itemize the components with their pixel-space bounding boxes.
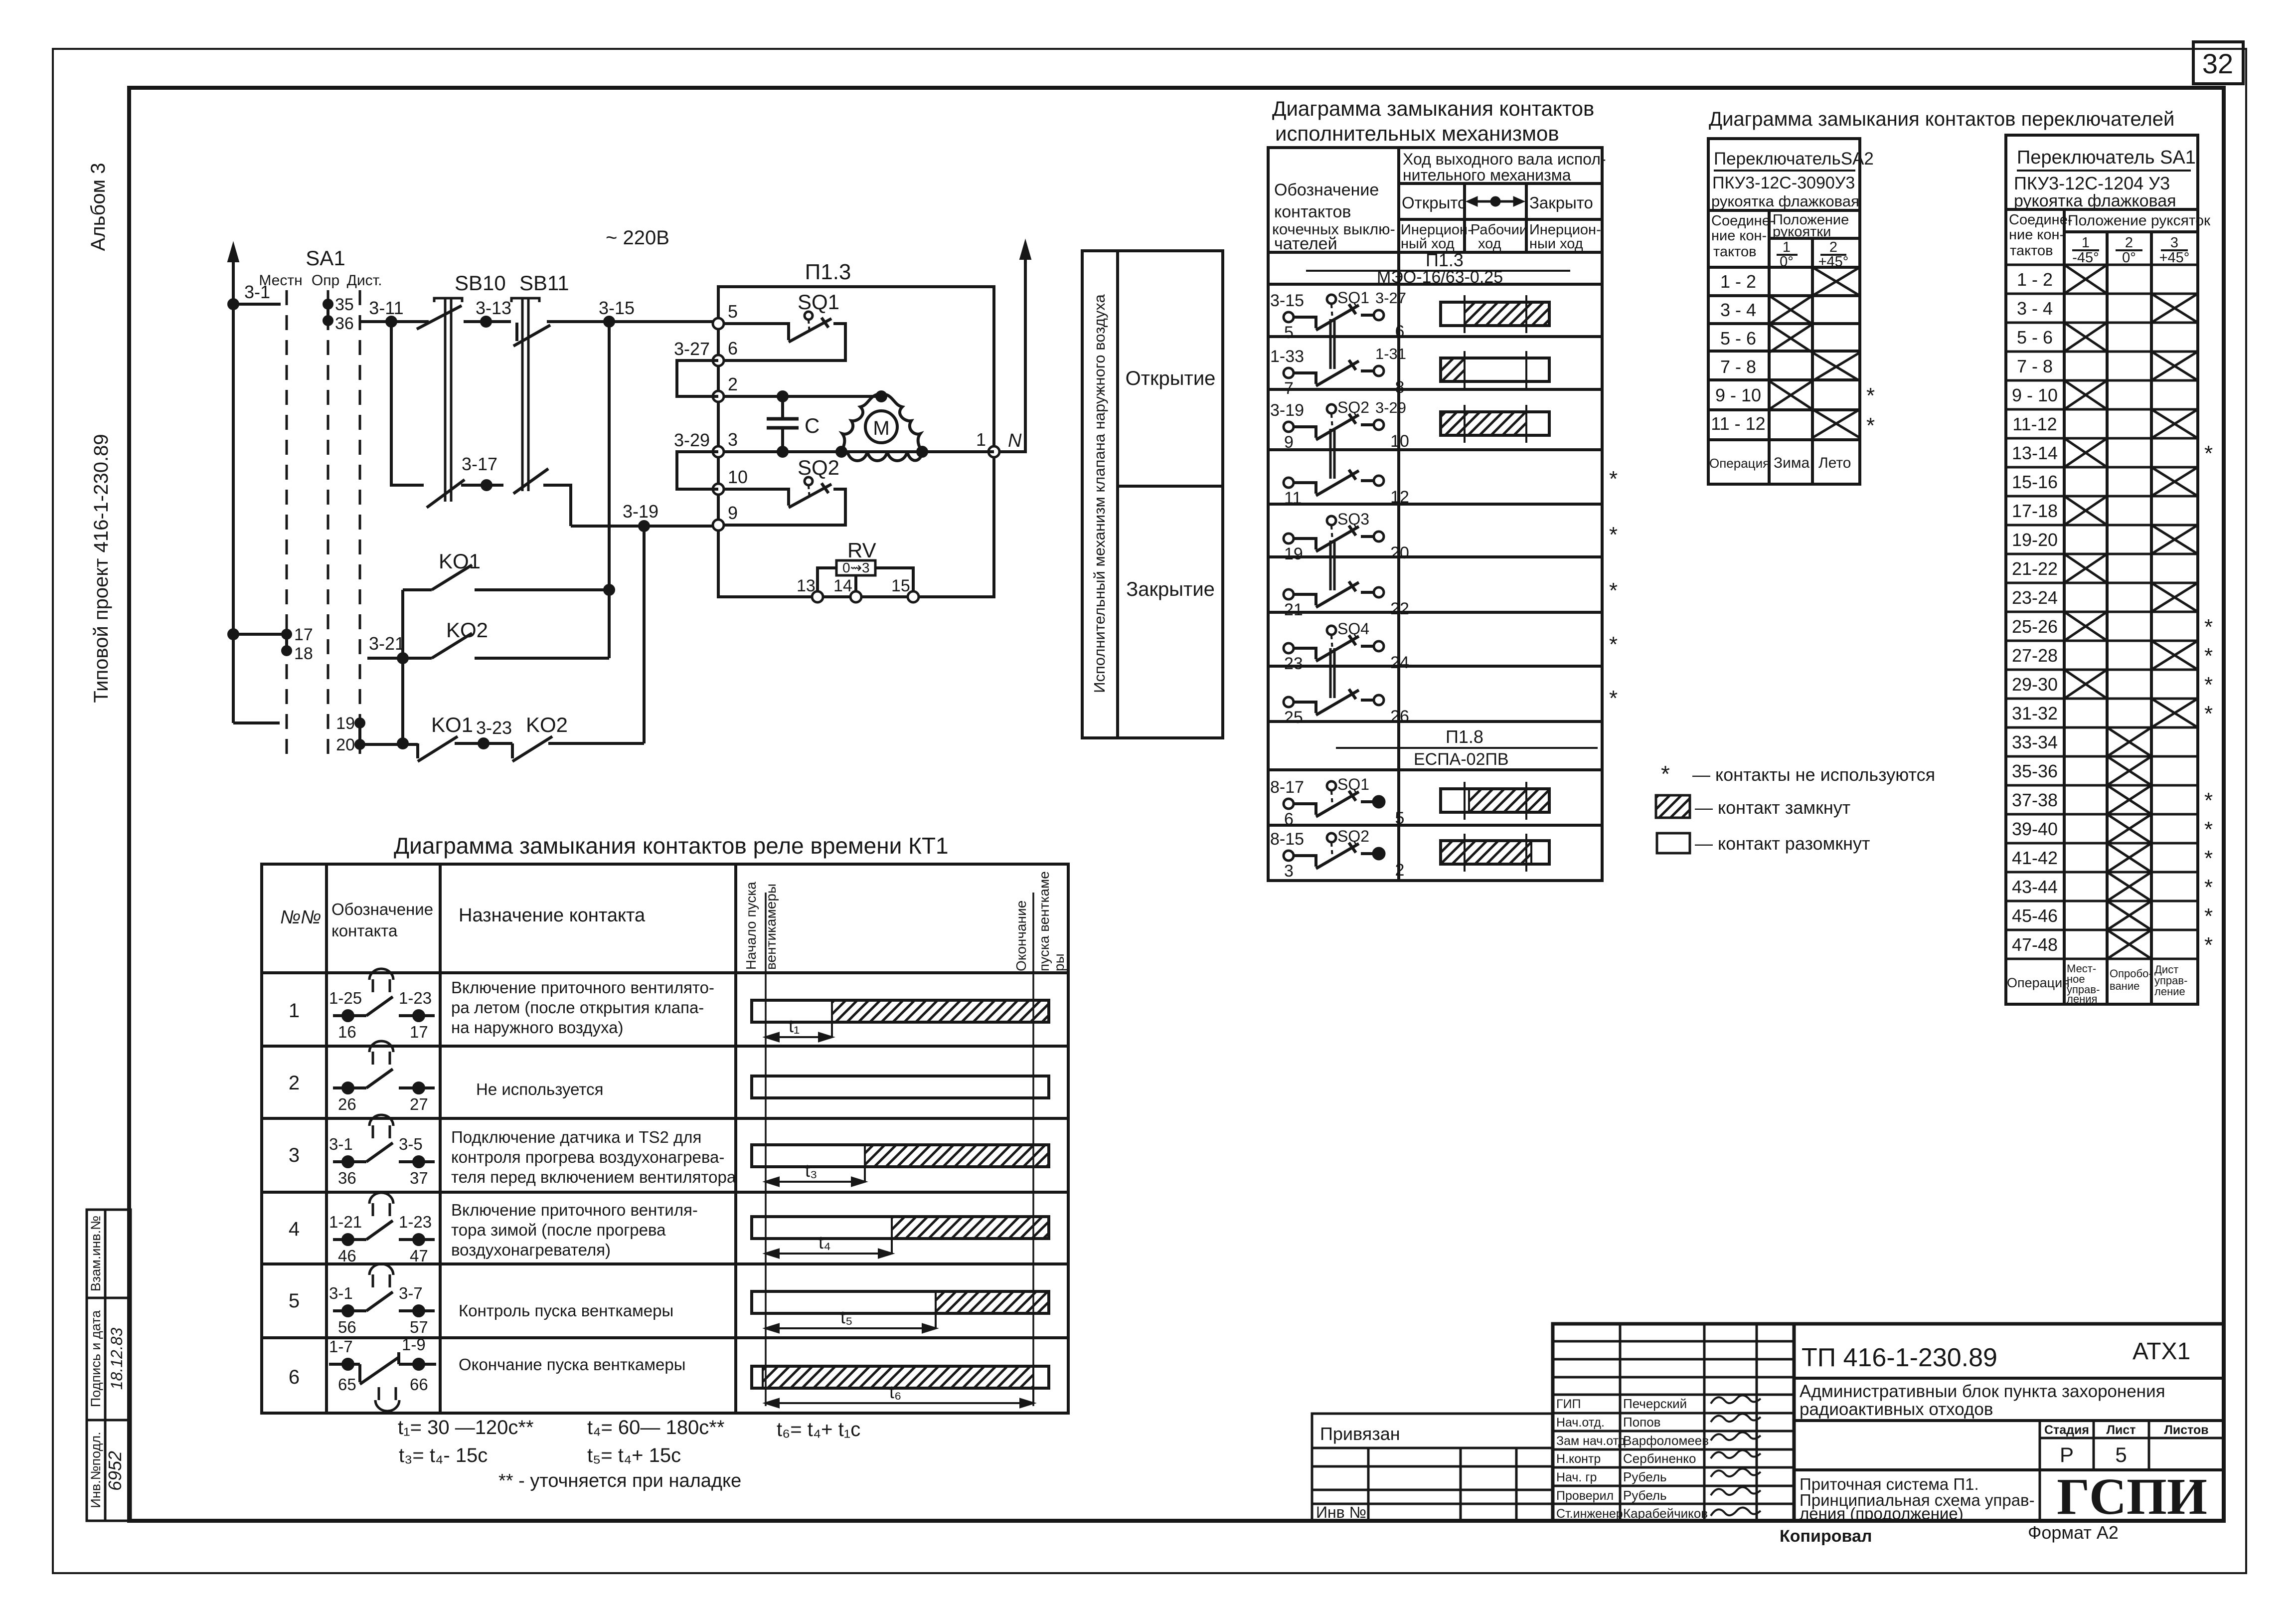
svg-text:*: * [1866,413,1875,438]
svg-text:5: 5 [1395,809,1405,828]
svg-text:6: 6 [1395,322,1405,341]
svg-text:— контакт замкнут: — контакт замкнут [1695,797,1850,818]
KT1 table frame [262,864,1068,1413]
svg-text:21-22: 21-22 [2012,558,2058,579]
svg-text:Рубель: Рубель [1623,1469,1667,1484]
svg-text:19-20: 19-20 [2012,530,2058,550]
svg-text:-45°: -45° [2072,250,2099,266]
wire 3-1 from bus to SA1 [229,300,281,309]
svg-text:Н.контр: Н.контр [1556,1452,1601,1466]
limit switch SQ2 contact row П1.8 (8-15) [1284,833,1384,869]
svg-text:Карабейчиков: Карабейчиков [1623,1506,1708,1521]
svg-text:Включение приточного вентиля: Включение приточного вентиля- [451,1201,698,1219]
svg-text:1: 1 [2082,235,2090,251]
svg-text:26: 26 [338,1095,356,1113]
svg-text:*: * [1609,632,1618,657]
wire N riser with arrow [999,240,1031,452]
svg-text:— контакты не используются: — контакты не используются [1692,764,1935,785]
svg-text:П1.3: П1.3 [805,260,851,284]
svg-text:Проверил: Проверил [1556,1489,1614,1503]
svg-text:3-1: 3-1 [329,1284,353,1302]
svg-text:3: 3 [1284,862,1294,881]
svg-text:контактов: контактов [1274,202,1351,221]
svg-text:3-1: 3-1 [244,282,270,302]
wire terminal 3 row [724,447,994,456]
terminals 13 14 15 [812,591,919,602]
svg-text:ныи ход: ныи ход [1529,236,1583,252]
terminal 1 and N [988,446,999,457]
svg-text:27-28: 27-28 [2012,645,2058,666]
svg-text:KO2: KO2 [526,713,568,736]
svg-text:Копировал: Копировал [1780,1527,1872,1546]
svg-text:*: * [2204,904,2213,928]
svg-text:t₃= t₄- 15с: t₃= t₄- 15с [399,1444,488,1466]
svg-text:Формат А2: Формат А2 [2028,1522,2119,1543]
svg-text:5: 5 [2115,1443,2127,1466]
svg-text:3-13: 3-13 [476,298,511,318]
svg-text:Переключатель SA1: Переключатель SA1 [2017,147,2196,168]
svg-text:3-1: 3-1 [329,1135,353,1153]
contact SA1 35-36 [324,300,332,325]
svg-text:Дист.: Дист. [347,272,382,289]
svg-text:6952: 6952 [105,1451,125,1491]
svg-text:3: 3 [2170,235,2178,251]
svg-text:1-31: 1-31 [1375,345,1406,362]
svg-text:Ст.инженер: Ст.инженер [1556,1507,1623,1521]
svg-text:ры: ры [1051,953,1067,971]
svg-text:SQ4: SQ4 [1337,620,1369,638]
svg-text:*: * [2204,441,2213,466]
svg-text:7 - 8: 7 - 8 [2017,356,2053,376]
svg-text:*: * [1609,686,1618,711]
svg-text:Соедине-: Соедине- [2009,212,2072,228]
privyazan box [1312,1414,1553,1521]
svg-text:KO1: KO1 [431,713,473,736]
legend: empty box contact open [1657,833,1690,853]
svg-text:Привязан: Привязан [1320,1424,1400,1444]
svg-text:3-27: 3-27 [674,339,710,359]
svg-text:4: 4 [289,1218,300,1240]
svg-text:3 - 4: 3 - 4 [2017,298,2053,319]
svg-text:21: 21 [1284,600,1303,619]
svg-text:3: 3 [289,1144,300,1166]
svg-text:Лето: Лето [1818,455,1851,471]
svg-text:Опр: Опр [312,272,339,289]
svg-text:22: 22 [1390,599,1409,618]
svg-text:П1.3: П1.3 [1426,250,1464,270]
svg-text:ТП 416-1-230.89: ТП 416-1-230.89 [1802,1343,1997,1372]
contact row 1-33/1-31 (pins 7 8) [1284,319,1384,386]
svg-text:t₄= 60— 180с**: t₄= 60— 180с** [587,1417,724,1439]
svg-text:3-15: 3-15 [1270,291,1304,310]
svg-text:SQ2: SQ2 [1337,398,1369,416]
limit switch SQ2 contact row (3-19/3-29) [1284,404,1384,440]
svg-text:радиоактивных отходов: радиоактивных отходов [1800,1400,1993,1419]
svg-text:11-12: 11-12 [2012,414,2057,434]
svg-text:5 - 6: 5 - 6 [2017,327,2053,348]
svg-text:t₃: t₃ [805,1160,818,1181]
svg-text:2: 2 [728,374,738,394]
limit switch SQ1 contact row П1.8 (8-17) [1284,781,1384,817]
svg-text:11 - 12: 11 - 12 [1711,413,1765,434]
svg-text:SQ1: SQ1 [798,290,839,314]
svg-text:t₁: t₁ [789,1016,800,1036]
svg-text:5: 5 [289,1290,300,1312]
svg-text:ление: ление [2154,985,2185,998]
svg-text:8-15: 8-15 [1270,830,1304,849]
svg-text:Подключение датчика и TS2 д: Подключение датчика и TS2 для [451,1128,701,1146]
svg-text:20: 20 [1390,543,1409,562]
svg-text:Соедине-: Соедине- [1711,213,1775,229]
svg-text:18.12.83: 18.12.83 [108,1328,126,1390]
wire bottom interlock row [364,736,644,761]
svg-text:65: 65 [338,1375,356,1394]
wire riser from 3-19 node down [643,526,646,743]
svg-text:SB10: SB10 [455,271,506,295]
svg-text:Нач.отд.: Нач.отд. [1556,1416,1605,1430]
svg-text:Типовой проект 416-1-230.89: Типовой проект 416-1-230.89 [90,434,112,703]
svg-text:7 - 8: 7 - 8 [1720,357,1756,377]
svg-text:3-29: 3-29 [1375,399,1406,416]
svg-text:t₄: t₄ [819,1232,831,1253]
svg-text:~ 220В: ~ 220В [606,227,669,249]
svg-text:3 - 4: 3 - 4 [1720,300,1756,320]
svg-text:t₁= 30 —120с**: t₁= 30 —120с** [398,1417,534,1439]
svg-text:*: * [2204,615,2213,639]
svg-text:МЭО-16/63-0,25: МЭО-16/63-0,25 [1377,268,1503,287]
svg-text:Печерский: Печерский [1623,1396,1687,1411]
switch SA2 diagram table [1708,139,1860,484]
svg-text:Зам нач.отд: Зам нач.отд [1556,1434,1626,1448]
contact row pins 25 26 [1284,648,1384,715]
svg-text:Диаграмма замыкания контакто: Диаграмма замыкания контактов переключат… [1709,108,2174,130]
svg-text:15-16: 15-16 [2012,472,2058,492]
contact SA1 17-18 [229,630,291,655]
contact row pins 11 12 [1284,429,1384,496]
title block outline [1553,1324,2224,1521]
wire riser from 3-15 node [605,322,614,658]
node: supply riser left with arrow [228,243,239,723]
svg-text:пуска венткаме: пуска венткаме [1036,871,1052,971]
wire 3-19 row to pin 9 [571,522,718,531]
svg-text:рукоятка флажковая: рукоятка флажковая [2014,191,2176,210]
svg-text:18: 18 [294,644,313,663]
svg-text:Листов: Листов [2164,1423,2208,1437]
svg-text:** - уточняется при наладке: ** - уточняется при наладке [498,1470,741,1491]
limit switch SQ1 contact row (3-15/3-27) [1284,295,1384,330]
contact SA1 19-20 [233,719,364,748]
svg-text:3-19: 3-19 [623,501,658,522]
svg-text:нительного механизма: нительного механизма [1403,166,1571,184]
svg-text:1 - 2: 1 - 2 [1720,271,1756,292]
svg-text:27: 27 [410,1095,428,1113]
svg-text:13-14: 13-14 [2012,443,2058,463]
svg-text:АТХ1: АТХ1 [2132,1338,2190,1365]
legend: hatched box contact closed [1656,795,1690,818]
svg-text:Попов: Попов [1623,1415,1661,1430]
svg-text:16: 16 [338,1023,356,1041]
svg-text:SA1: SA1 [306,246,345,270]
svg-text:Опробо-: Опробо- [2110,967,2152,980]
svg-text:SQ2: SQ2 [1337,827,1369,845]
svg-text:Взам.инв.№: Взам.инв.№ [88,1216,103,1291]
switch SA1 diagram table [2006,135,2198,1004]
svg-text:3-17: 3-17 [462,454,497,474]
svg-text:3-19: 3-19 [1270,401,1304,420]
svg-text:2: 2 [1395,861,1405,880]
svg-text:ПКУ3-12С-1204 У3: ПКУ3-12С-1204 У3 [2014,173,2170,193]
svg-text:9 - 10: 9 - 10 [2012,385,2058,405]
svg-text:8: 8 [1395,378,1405,397]
svg-text:*: * [1866,383,1875,408]
svg-text:*: * [2204,644,2213,668]
svg-text:ПКУ3-12С-3090У3: ПКУ3-12С-3090У3 [1712,174,1855,192]
svg-text:на наружного воздуха): на наружного воздуха) [451,1018,623,1037]
svg-text:чателей: чателей [1274,234,1337,253]
svg-text:Закрытие: Закрытие [1126,578,1215,600]
limit switch SQ3 contact row (pins 19 20) [1284,516,1384,551]
svg-text:М: М [873,417,889,439]
svg-text:9: 9 [728,503,738,523]
svg-text:Диаграмма замыкания контактов: Диаграмма замыкания контактов реле време… [394,833,949,859]
svg-text:Инв №: Инв № [1316,1503,1366,1521]
svg-text:N: N [1008,430,1022,451]
svg-text:Инв.№подл.: Инв.№подл. [88,1432,103,1508]
svg-text:36: 36 [338,1169,356,1187]
svg-text:5: 5 [1284,323,1294,342]
svg-text:Операция: Операция [2007,975,2070,990]
svg-text:46: 46 [338,1247,356,1265]
svg-text:C: C [805,414,820,437]
svg-text:ГИП: ГИП [1556,1397,1581,1411]
svg-text:*: * [2204,875,2213,900]
svg-text:1: 1 [289,1000,300,1022]
wire terminal 2 to motor [724,392,886,401]
svg-text:воздухонагревателя): воздухонагревателя) [451,1241,611,1259]
svg-text:33-34: 33-34 [2012,732,2058,752]
svg-text:рукоятка флажковая: рукоятка флажковая [1711,192,1859,210]
motor M single phase [841,394,922,461]
svg-text:контакта: контакта [331,921,398,940]
svg-text:35: 35 [335,295,354,314]
svg-text:1-23: 1-23 [399,1213,432,1231]
svg-text:Зима: Зима [1774,455,1810,471]
switch SA1 position dashed lines [287,290,360,758]
svg-text:*: * [1609,467,1618,491]
svg-text:+45°: +45° [2159,250,2190,266]
svg-text:57: 57 [410,1318,428,1336]
svg-text:5: 5 [728,301,738,322]
svg-text:17: 17 [410,1023,428,1041]
svg-text:ние кон-: ние кон- [2009,227,2064,243]
svg-text:66: 66 [410,1375,428,1394]
actuator legend box Открытие/Закрытие [1082,251,1223,738]
svg-text:0°: 0° [1780,254,1794,270]
svg-text:Лист: Лист [2106,1423,2135,1437]
signature table [1553,1324,1794,1521]
svg-text:Окончание пуска венткамеры: Окончание пуска венткамеры [459,1355,685,1374]
svg-text:Стадия: Стадия [2044,1423,2089,1437]
svg-text:1-7: 1-7 [329,1337,353,1356]
svg-text:ГСПИ: ГСПИ [2057,1468,2207,1525]
svg-text:Открытие: Открытие [1126,367,1216,389]
svg-text:31-32: 31-32 [2012,703,2058,723]
svg-text:2: 2 [1829,239,1837,255]
svg-text:1-23: 1-23 [399,989,432,1007]
svg-text:Р: Р [2060,1443,2074,1466]
capacitor C [767,396,799,452]
svg-text:*: * [2204,933,2213,957]
svg-text:3: 3 [728,429,738,450]
svg-text:Варфоломеев: Варфоломеев [1623,1433,1709,1448]
svg-text:3-11: 3-11 [369,298,403,318]
svg-text:3-21: 3-21 [369,633,405,654]
svg-text:15: 15 [891,576,910,595]
svg-text:3-7: 3-7 [399,1284,423,1302]
svg-text:6: 6 [289,1366,300,1388]
svg-text:6: 6 [728,338,738,359]
svg-text:39-40: 39-40 [2012,819,2058,839]
svg-text:рукоятки: рукоятки [1773,224,1831,240]
stage/sheet boxes [1794,1421,2224,1521]
svg-text:ления: ления [2067,993,2097,1005]
svg-text:SQ3: SQ3 [1337,510,1369,528]
svg-text:тактов: тактов [2010,243,2053,259]
svg-text:ПереключательSA2: ПереключательSA2 [1714,149,1874,169]
svg-text:17: 17 [294,625,313,644]
contact row pins 21 22 [1284,540,1384,607]
svg-text:Не используется: Не используется [476,1080,604,1098]
svg-text:*: * [1661,761,1670,787]
svg-text:1: 1 [1783,239,1791,255]
svg-text:ход: ход [1478,236,1501,252]
svg-text:25: 25 [1284,708,1303,727]
svg-text:19: 19 [1284,544,1303,563]
svg-text:Закрыто: Закрыто [1529,193,1593,212]
svg-text:теля перед включением вентил: теля перед включением вентилятора [451,1168,736,1186]
svg-text:47: 47 [410,1247,428,1265]
svg-text:Контроль пуска венткамеры: Контроль пуска венткамеры [459,1301,673,1320]
svg-text:19: 19 [336,714,355,733]
svg-text:Обозначение: Обозначение [1274,180,1379,199]
svg-text:3-15: 3-15 [599,298,635,318]
svg-text:3-29: 3-29 [674,430,710,450]
svg-text:12: 12 [1390,488,1409,507]
svg-text:П1.8: П1.8 [1446,726,1483,747]
svg-text:№№: №№ [280,907,321,928]
svg-text:Ход выходного вала испол-: Ход выходного вала испол- [1403,150,1606,168]
svg-text:— контакт разомкнут: — контакт разомкнут [1695,833,1870,854]
svg-text:t₅: t₅ [840,1307,853,1327]
svg-text:41-42: 41-42 [2012,848,2058,868]
svg-text:t₆: t₆ [889,1382,902,1402]
svg-text:35-36: 35-36 [2012,761,2058,781]
mechanisms table frame [1268,148,1602,881]
svg-text:10: 10 [1390,432,1409,451]
svg-text:11: 11 [1284,489,1302,508]
svg-text:Диаграмма замыкания контактов: Диаграмма замыкания контактов [1272,97,1594,120]
svg-text:24: 24 [1390,653,1409,672]
svg-text:5 - 6: 5 - 6 [1720,328,1756,349]
wire 3-17 row [391,322,571,526]
svg-text:2: 2 [2125,235,2133,251]
svg-text:*: * [2204,846,2213,871]
svg-text:9 - 10: 9 - 10 [1715,385,1761,405]
svg-text:0⇝3: 0⇝3 [842,560,870,575]
svg-text:Начало пуска: Начало пуска [743,882,759,970]
svg-text:*: * [2204,673,2213,697]
svg-text:20: 20 [336,735,355,754]
svg-text:1-25: 1-25 [329,989,362,1007]
svg-text:47-48: 47-48 [2012,934,2058,955]
svg-text:6: 6 [1284,810,1294,829]
terminals 5 6 2 3 10 9 of П1.3 [713,318,724,531]
sheet number box 32 [2193,42,2243,84]
svg-text:13: 13 [797,576,816,595]
svg-text:0°: 0° [2122,250,2136,266]
svg-text:1: 1 [976,429,986,450]
jumper 3-29 (terminals 3-10) [677,452,718,489]
svg-text:37: 37 [410,1169,428,1187]
svg-text:1-33: 1-33 [1270,347,1304,366]
svg-text:Положение руксяток: Положение руксяток [2068,212,2211,229]
svg-text:SQ1: SQ1 [1337,289,1369,307]
svg-text:вание: вание [2110,980,2139,992]
svg-text:Операция: Операция [1709,456,1770,471]
svg-text:t₆= t₄+ t₁с: t₆= t₄+ t₁с [777,1419,860,1440]
svg-text:ЕСПА-02ПВ: ЕСПА-02ПВ [1414,750,1509,769]
travel arrow symbol [1469,197,1522,205]
svg-text:37-38: 37-38 [2012,790,2058,810]
jumper 3-27 (terminals 6-2) [677,360,718,396]
start/end marker lines [765,893,767,1406]
svg-text:*: * [2204,817,2213,842]
svg-text:3-23: 3-23 [476,718,512,738]
limit switch SQ4 contact row (pins 23 24) [1284,626,1384,661]
svg-text:Назначение контакта: Назначение контакта [459,905,646,926]
svg-text:25-26: 25-26 [2012,616,2058,637]
svg-text:7: 7 [1284,379,1294,398]
svg-text:+45°: +45° [1818,254,1849,270]
svg-text:9: 9 [1284,433,1294,452]
svg-text:*: * [2204,702,2213,726]
svg-text:43-44: 43-44 [2012,877,2058,897]
svg-text:исполнительных механизмов: исполнительных механизмов [1275,122,1559,145]
svg-text:Открыто: Открыто [1402,193,1467,212]
svg-text:1-21: 1-21 [329,1213,362,1231]
svg-text:10: 10 [728,467,748,487]
svg-text:23: 23 [1284,654,1303,673]
svg-text:Подпись и дата: Подпись и дата [88,1310,103,1407]
wire top row to pin 5 [360,317,718,326]
svg-text:t₅= t₄+ 15с: t₅= t₄+ 15с [587,1444,681,1466]
svg-text:ления (продолжение): ления (продолжение) [1800,1504,1964,1523]
svg-text:32: 32 [2202,48,2233,79]
svg-text:14: 14 [833,576,852,595]
svg-text:Рубель: Рубель [1623,1488,1667,1503]
svg-text:23-24: 23-24 [2012,587,2058,608]
svg-text:SQ2: SQ2 [798,456,839,479]
svg-text:17-18: 17-18 [2012,501,2058,521]
svg-text:SQ1: SQ1 [1337,775,1369,793]
svg-text:3-27: 3-27 [1375,289,1406,307]
svg-text:тора зимой (после прогрева: тора зимой (после прогрева [451,1221,666,1239]
svg-text:*: * [2204,788,2213,813]
left stamp table [87,1210,131,1521]
svg-text:2: 2 [289,1072,300,1094]
svg-text:RV: RV [847,539,876,562]
svg-text:26: 26 [1390,707,1409,726]
